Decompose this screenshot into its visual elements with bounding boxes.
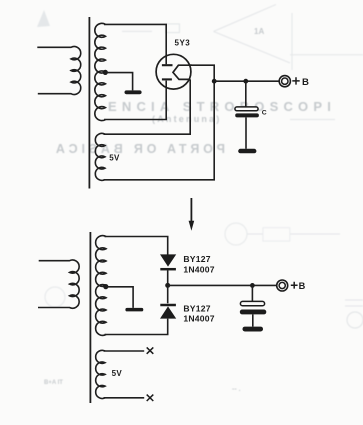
svg-text:5V: 5V xyxy=(112,369,123,378)
label +B (top) xyxy=(292,77,299,84)
wire HV top to V1 plate 1 xyxy=(104,24,166,64)
wire C to ground xyxy=(245,117,247,148)
svg-text:BY127: BY127 xyxy=(183,303,210,313)
node T1 center tap xyxy=(103,70,108,75)
V1 plate 2 xyxy=(162,78,172,80)
capacitor C bottom plate xyxy=(235,113,259,117)
transformer T1 5V filament winding xyxy=(95,133,105,180)
V1 plate 1 xyxy=(162,64,173,66)
arrow (replace tube with diodes) xyxy=(190,198,192,222)
wire 5V bottom to terminal X2 xyxy=(104,397,145,399)
diode D2 BY127 triangle xyxy=(160,306,176,318)
capacitor C2 bottom plate xyxy=(240,310,266,315)
svg-text:B+A IT: B+A IT xyxy=(44,380,63,386)
wire junction to diode D2 xyxy=(167,285,169,303)
ground (top center-tap) xyxy=(125,90,142,94)
diode D1 BY127 triangle xyxy=(160,254,176,266)
terminal X1 xyxy=(147,347,154,353)
wire C2 to ground xyxy=(252,314,254,326)
wire output to +B terminal (top) xyxy=(214,80,279,82)
wire D1 to output junction xyxy=(167,270,169,285)
transformer T1 primary winding xyxy=(37,47,80,95)
node T2 center tap xyxy=(103,284,108,289)
node capacitor tap (bottom) xyxy=(250,283,255,288)
terminal +B (top) xyxy=(279,76,290,87)
wire 5V top to terminal X1 xyxy=(104,350,145,352)
ground (bottom center-tap) xyxy=(125,308,143,312)
svg-text:-- .: -- . xyxy=(232,386,241,393)
wire D2 to HV bottom xyxy=(105,319,168,335)
wire node to capacitor C2 xyxy=(251,285,253,301)
transformer T2 HV secondary winding xyxy=(96,236,106,336)
transformer T1 HV secondary winding xyxy=(95,23,106,120)
wire filament bottom arm to 5V winding top xyxy=(104,79,191,134)
diode D2 cathode bar xyxy=(160,304,176,307)
wire filament top arm to output node and 5V winding bottom xyxy=(104,65,215,180)
svg-text:1N4007: 1N4007 xyxy=(183,314,214,324)
wire output to +B terminal (bottom) xyxy=(168,284,277,286)
ground (top filter) xyxy=(238,149,256,154)
svg-text:PORTA OR BASICA: PORTA OR BASICA xyxy=(52,142,225,156)
svg-text:BY127: BY127 xyxy=(183,254,210,264)
svg-text:1A: 1A xyxy=(254,27,264,36)
label +B (bottom) xyxy=(291,282,298,289)
svg-text:5V: 5V xyxy=(109,154,120,163)
svg-text:5Y3: 5Y3 xyxy=(175,39,191,48)
wire HV top to diode D1 xyxy=(105,237,168,255)
wire center tap to ground (bottom) xyxy=(106,287,133,308)
diode D1 cathode bar xyxy=(160,268,176,271)
svg-text:B: B xyxy=(302,77,309,88)
transformer T2 primary winding xyxy=(38,260,79,308)
node output junction (bottom) xyxy=(165,283,170,288)
wire node to capacitor C xyxy=(245,81,247,107)
V1 filament/cathode xyxy=(173,65,192,79)
node capacitor tap (top) xyxy=(243,79,248,84)
transformer T2 5V filament winding xyxy=(96,350,105,398)
tube V1 5Y3 envelope xyxy=(156,54,191,89)
transformer T1 core xyxy=(88,17,90,189)
terminal X2 xyxy=(147,395,154,401)
wire HV bottom to V1 plate 2 xyxy=(104,81,166,120)
transformer T2 core xyxy=(89,232,91,403)
ground (bottom filter) xyxy=(243,327,264,332)
svg-text:B: B xyxy=(299,281,306,291)
capacitor C top plate xyxy=(235,107,258,111)
terminal +B (bottom) xyxy=(277,280,288,291)
svg-text:C: C xyxy=(262,109,267,116)
node output junction (top) xyxy=(212,79,217,84)
svg-text:ENCIA STROBOSCOPI: ENCIA STROBOSCOPI xyxy=(108,99,336,114)
wire center tap to ground xyxy=(105,73,132,91)
capacitor C2 top plate xyxy=(240,301,264,305)
svg-text:1N4007: 1N4007 xyxy=(183,265,214,275)
